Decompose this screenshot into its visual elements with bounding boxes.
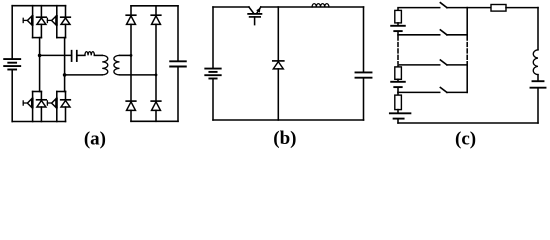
wire cell4 top join: [57, 91, 66, 93]
wire L3 to C4: [537, 75, 539, 81]
node leg1 mid: [38, 54, 42, 58]
transistor Q2 (top-right cell switch): [47, 6, 56, 38]
battery cell B3 plates: [390, 110, 411, 123]
wire bottom rail left bridge: [12, 121, 65, 123]
wire right bridge top rail: [131, 5, 178, 7]
resistor R1: [491, 5, 506, 12]
transistor Q4 (bottom-right cell switch): [47, 92, 56, 122]
battery cell B1 plates: [391, 23, 405, 35]
diode D2 (top-right cell): [61, 6, 71, 38]
diode D7 (rectifier bottom-left): [126, 55, 136, 121]
wire top rail left: [213, 6, 249, 8]
wire right bridge bottom rail: [131, 120, 178, 122]
switch SW4: [440, 88, 467, 93]
wire leg1 upper descender: [39, 38, 41, 56]
wire dashed left bus: [397, 36, 399, 63]
battery cell B3 box: [397, 92, 399, 95]
wire right edge top: [537, 8, 539, 50]
wire bottom rail: [213, 119, 364, 121]
wire C1 to L1: [77, 54, 85, 56]
wire cell3 top join: [33, 91, 42, 93]
wire cell1 bottom join: [33, 37, 42, 39]
capacitor C3 (output b): [356, 7, 372, 120]
node secondary bottom junction: [155, 74, 158, 77]
node secondary top junction: [130, 54, 133, 57]
battery cell B2 plates: [391, 79, 405, 92]
wire leg2 lower riser: [64, 75, 66, 92]
diode D4 (bottom-right cell): [61, 92, 71, 122]
diode D1 (top-left cell): [37, 6, 47, 38]
wire right bus solid upper: [466, 8, 468, 35]
diode D5 (rectifier top-left): [126, 6, 136, 56]
switch SW2: [440, 30, 467, 35]
transistor Q5 (buck switch): [248, 7, 261, 25]
svg-text:(c): (c): [455, 128, 476, 149]
wire secondary bottom: [120, 74, 157, 76]
wire row1 tap: [398, 8, 440, 11]
wire row3 tap: [398, 65, 440, 67]
diode D6 (rectifier top-right): [151, 6, 161, 75]
wire L1 to transformer: [94, 54, 102, 56]
diode D3 (bottom-left cell): [37, 92, 47, 122]
battery V1: [4, 6, 20, 122]
node leg2 mid: [63, 73, 67, 77]
wire secondary top: [120, 54, 132, 56]
transformer TR1 primary winding: [102, 55, 108, 75]
battery cell B1 box: [395, 10, 402, 23]
switch SW3: [440, 60, 467, 65]
transistor Q1 (top-left cell switch): [23, 6, 32, 38]
battery V2: [205, 7, 220, 120]
inductor L3: [533, 50, 538, 75]
wire right bus dashed: [466, 36, 468, 63]
battery cell B2 box: [395, 67, 402, 79]
wire bottom rail c: [398, 122, 538, 124]
diode D8 (rectifier bottom-right): [151, 75, 161, 121]
transformer TR1 secondary winding: [114, 55, 120, 75]
wire row2 tap: [398, 34, 440, 36]
svg-text:(a): (a): [84, 128, 106, 149]
wire top rail right: [261, 6, 364, 8]
transistor Q3 (bottom-left cell switch): [23, 92, 32, 122]
diode D9 (freewheel): [273, 7, 284, 120]
inductor L1 (resonant): [85, 52, 95, 56]
svg-text:(b): (b): [273, 128, 296, 149]
wire upper mid line: [40, 54, 72, 56]
wire right bus solid lower: [466, 65, 468, 93]
wire cell2 bottom join: [57, 37, 66, 39]
wire lower mid line: [65, 74, 103, 76]
wire R1 to corner: [506, 7, 538, 9]
capacitor C1 (resonant): [72, 51, 77, 61]
wire top rail left bridge: [12, 5, 65, 7]
capacitor C2 (output a): [170, 6, 186, 122]
capacitor C4 (output c): [531, 81, 546, 123]
wire row4 tap: [398, 91, 440, 93]
inductor L2: [312, 4, 329, 7]
wire leg1 lower riser: [39, 55, 41, 91]
switch SW1: [440, 3, 491, 8]
wire leg2 descender: [64, 38, 66, 75]
